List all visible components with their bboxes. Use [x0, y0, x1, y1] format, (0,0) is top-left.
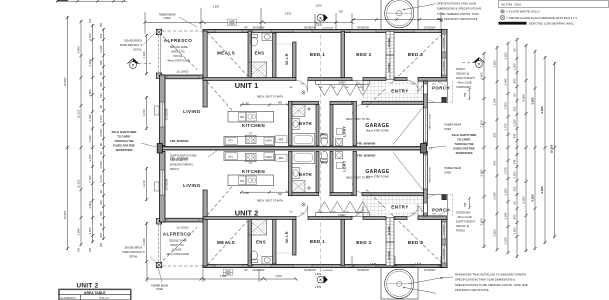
wall ldry/garage	[353, 101, 356, 145]
svg-text:FRL 60/60/60: FRL 60/60/60	[357, 154, 376, 158]
ens shower	[248, 62, 267, 78]
svg-text:21-21AGD: 21-21AGD	[177, 71, 189, 74]
svg-text:LIVING: LIVING	[183, 183, 201, 188]
svg-text:LINEN: LINEN	[338, 214, 345, 217]
tank note top	[437, 2, 481, 22]
top-left corner cut dims	[56, 0, 127, 2]
svg-text:900: 900	[278, 193, 283, 196]
svg-text:PER BASIX CERTIFICATE: PER BASIX CERTIFICATE	[455, 288, 489, 292]
smoke alarm hall	[302, 91, 305, 94]
svg-text:SOFFIT HEIGHT: SOFFIT HEIGHT	[456, 221, 475, 224]
svg-text:PTY: PTY	[229, 141, 234, 143]
svg-text:2,250: 2,250	[513, 171, 517, 178]
svg-text:EAVES FOR FIRE: EAVES FOR FIRE	[113, 144, 135, 148]
svg-text:STEPDOWN: STEPDOWN	[456, 86, 471, 89]
svg-text:09-06DSW: 09-06DSW	[357, 27, 369, 30]
svg-text:3,560: 3,560	[480, 218, 484, 225]
window codes top	[227, 19, 443, 29]
svg-text:OVER: OVER	[444, 172, 451, 175]
svg-text:7/8M P/L DOOR: 7/8M P/L DOOR	[430, 114, 432, 130]
svg-text:950: 950	[493, 132, 497, 137]
svg-text:ROBE: ROBE	[387, 250, 391, 259]
garage top wall	[362, 101, 426, 104]
notes: timber beam bottom-left	[151, 285, 168, 292]
svg-text:798: 798	[464, 202, 467, 207]
top outer wall	[203, 29, 447, 32]
svg-text:950: 950	[99, 82, 103, 87]
X marker top	[317, 14, 328, 22]
svg-text:21-21AGD: 21-21AGD	[177, 227, 189, 230]
svg-text:DIMENSIONS & SPECIFICATIONS: DIMENSIONS & SPECIFICATIONS	[437, 7, 481, 11]
svg-text:SOFFIT HEIGHT: SOFFIT HEIGHT	[456, 77, 475, 80]
svg-text:12-09DSW: 12-09DSW	[444, 38, 446, 48]
svg-text:REF: REF	[279, 158, 284, 160]
svg-text:MANUFACTURER'S: MANUFACTURER'S	[170, 164, 193, 167]
porch outline	[427, 81, 447, 103]
svg-text:PIERS PER ENG 'S: PIERS PER ENG 'S	[122, 251, 145, 254]
wall alfresco/meals + nib to kitchen	[203, 31, 207, 107]
front wall entry+garage	[424, 81, 428, 146]
svg-text:16,505: 16,505	[550, 144, 554, 153]
svg-text:1,445: 1,445	[504, 212, 508, 219]
tank circles	[385, 0, 414, 28]
svg-text:1,870: 1,870	[315, 285, 322, 289]
wir shelf	[276, 43, 293, 45]
svg-text:90: 90	[513, 201, 517, 205]
svg-text:1,440: 1,440	[88, 154, 92, 161]
porch roof dashed	[427, 81, 452, 103]
svg-text:PIERS PER ENG 'S: PIERS PER ENG 'S	[120, 44, 143, 47]
hall/linen door swing zigzags	[318, 85, 369, 96]
svg-text:HOUSE: HOUSE	[174, 55, 183, 58]
svg-text:900: 900	[278, 102, 283, 105]
svg-text:950: 950	[513, 78, 517, 83]
svg-text:1,570: 1,570	[504, 123, 508, 130]
svg-text:OVER: OVER	[156, 288, 163, 291]
svg-text:09-09DSW: 09-09DSW	[253, 27, 265, 30]
svg-text:OVEN: OVEN	[265, 157, 272, 159]
svg-text:950: 950	[99, 60, 103, 65]
svg-text:950: 950	[513, 214, 517, 219]
bed1 door arc	[297, 81, 308, 92]
robe slot bed2/bed3	[386, 31, 394, 79]
FRL labels	[170, 139, 376, 161]
svg-text:250: 250	[89, 247, 92, 252]
svg-text:2,190: 2,190	[88, 33, 92, 40]
svg-text:2,860: 2,860	[88, 89, 92, 96]
kitchen rear counter	[224, 136, 275, 145]
left dim chain line 2	[80, 20, 83, 246]
svg-text:ALFRESCO: ALFRESCO	[163, 232, 191, 237]
entry tiled floor	[362, 81, 424, 103]
svg-text:DENOTES LOAD BEARING WALL: DENOTES LOAD BEARING WALL	[529, 22, 574, 26]
svg-text:86mm STEP DOWN: 86mm STEP DOWN	[366, 130, 389, 133]
svg-text:610: 610	[99, 93, 103, 98]
svg-text:350x350 BRICK: 350x350 BRICK	[125, 247, 143, 250]
window codes bottom	[223, 269, 443, 280]
svg-text:RAINWATER TANK INSTALLED TO MA: RAINWATER TANK INSTALLED TO MANUFACTURER…	[455, 273, 526, 277]
svg-text:- 46mm SLAB: - 46mm SLAB	[456, 216, 472, 219]
svg-text:PORCH: PORCH	[456, 230, 465, 233]
svg-text:BATH: BATH	[299, 172, 312, 177]
svg-text:25mm SHAFTLINER: 25mm SHAFTLINER	[112, 130, 137, 134]
room labels unit1	[386, 86, 415, 94]
svg-text:2,440: 2,440	[99, 161, 103, 168]
alfresco slab left edge	[158, 31, 160, 75]
svg-text:- 46mm STEP DOWN: - 46mm STEP DOWN	[166, 60, 190, 63]
svg-text:2,340: 2,340	[88, 114, 92, 121]
svg-text:90: 90	[513, 48, 517, 52]
alfresco diagonal dashed	[163, 37, 197, 70]
svg-text:PORCH: PORCH	[456, 68, 465, 71]
svg-text:MEALS: MEALS	[217, 240, 235, 245]
left inner dim near wall top	[145, 34, 148, 263]
wall wc/ldry	[330, 105, 333, 146]
party wall	[157, 144, 426, 154]
ens vanity	[262, 33, 273, 41]
svg-text:SEPERATION: SEPERATION	[116, 148, 133, 152]
svg-text:1,000: 1,000	[243, 192, 250, 195]
svg-text:= FLOOR WASTE GULLY: = FLOOR WASTE GULLY	[507, 10, 541, 14]
svg-text:90: 90	[99, 190, 103, 194]
porch post	[442, 97, 447, 102]
svg-text:FRL 60/60/60: FRL 60/60/60	[357, 142, 376, 146]
svg-text:12-09DSW: 12-09DSW	[444, 225, 446, 235]
entry-bed3 diagonal dashed	[366, 32, 445, 108]
meals diagonal dashed	[208, 33, 249, 77]
svg-text:245: 245	[513, 159, 517, 164]
svg-text:3,270: 3,270	[99, 175, 103, 182]
svg-text:WC: WC	[321, 161, 328, 165]
bath shower	[292, 105, 305, 117]
svg-text:- 46mm SLAB: - 46mm SLAB	[456, 82, 472, 85]
svg-text:90: 90	[513, 93, 517, 97]
svg-text:9,385: 9,385	[540, 106, 544, 113]
svg-text:= SMOKE ALARM IN ACCORDANCE WI: = SMOKE ALARM IN ACCORDANCE WITH BCA 3.7…	[507, 16, 578, 20]
svg-text:ENTRY: ENTRY	[391, 205, 408, 210]
south wall of top rooms	[203, 78, 296, 81]
notes: brick piers unit1	[120, 40, 143, 52]
svg-text:2,340: 2,340	[142, 51, 146, 58]
svg-text:1,330: 1,330	[213, 5, 220, 9]
garage brace diagonal	[393, 107, 424, 145]
wall meals/ens	[248, 31, 252, 78]
svg-text:GP: GP	[244, 269, 248, 272]
svg-text:TO CARRY: TO CARRY	[457, 138, 471, 142]
svg-text:STEPDOWN: STEPDOWN	[456, 212, 471, 215]
svg-text:350x350 BRICK: 350x350 BRICK	[124, 40, 142, 43]
svg-text:90: 90	[99, 105, 103, 109]
svg-text:7/8M P/L DOOR: 7/8M P/L DOOR	[430, 167, 432, 183]
X marker bottom	[317, 275, 328, 283]
svg-text:ALFRESCO: ALFRESCO	[61, 296, 77, 300]
hall south wall / bath top	[289, 101, 319, 104]
svg-text:2,340: 2,340	[88, 175, 92, 182]
svg-text:1,870: 1,870	[315, 4, 322, 8]
svg-text:SPECIFICATIONS TO BE VERIFIED: SPECIFICATIONS TO BE VERIFIED ONSITE. TA…	[455, 283, 528, 287]
linen closet shelf strip	[316, 81, 370, 85]
dim text top	[213, 4, 344, 27]
svg-text:8,380: 8,380	[522, 94, 526, 101]
wall bed1/bed2	[341, 31, 345, 77]
svg-text:HEIGHT AS: HEIGHT AS	[170, 244, 184, 247]
left dim chain line 3	[91, 24, 94, 243]
window wir/bed1	[293, 30, 312, 32]
svg-text:718: 718	[338, 10, 343, 14]
bed3 door arc	[408, 81, 419, 92]
svg-text:OVER: OVER	[163, 17, 170, 20]
svg-text:Y: Y	[132, 63, 135, 68]
svg-text:2,250: 2,250	[513, 119, 517, 126]
svg-text:1,435: 1,435	[370, 262, 377, 266]
notes: shaftliner system below wall	[170, 155, 197, 172]
tank enclosure	[381, 0, 418, 30]
svg-text:3,270: 3,270	[99, 115, 103, 122]
wall kitchen/bath	[289, 101, 292, 145]
svg-text:3,560: 3,560	[88, 227, 92, 234]
svg-text:ROBE: ROBE	[387, 37, 391, 46]
svg-text:3,560: 3,560	[88, 59, 92, 66]
sliding door 21-21AGD	[167, 76, 199, 78]
svg-text:PTY: PTY	[229, 157, 234, 159]
svg-text:1,440: 1,440	[88, 135, 92, 142]
Y marker left unit1	[127, 59, 151, 69]
brick pier top-left	[156, 29, 161, 34]
ldry trough	[336, 138, 343, 145]
wall bath/wc	[316, 105, 319, 146]
svg-text:2,340: 2,340	[493, 192, 497, 199]
right outer wall bed3	[442, 29, 448, 78]
svg-text:UNIT 1: UNIT 1	[235, 81, 258, 90]
party wall left cap	[157, 144, 162, 154]
svg-text:OVEN: OVEN	[265, 141, 272, 143]
dim text bottom	[220, 262, 422, 289]
svg-text:SPECIFICATIONS TANK SLAB DIMEN: SPECIFICATIONS TANK SLAB DIMENSIONS &	[455, 278, 515, 282]
svg-text:LIVING: LIVING	[183, 109, 201, 114]
wc toilet	[321, 137, 327, 146]
svg-text:90: 90	[99, 72, 103, 76]
room labels unit2	[163, 160, 450, 259]
svg-text:SIZE PER BASIX CERTIFICATE: SIZE PER BASIX CERTIFICATE	[437, 17, 478, 21]
svg-text:WC: WC	[321, 132, 328, 136]
window bed3 right b	[442, 58, 447, 75]
svg-text:1,650: 1,650	[220, 274, 227, 278]
svg-text:BED 1: BED 1	[310, 239, 326, 244]
svg-text:950: 950	[99, 211, 103, 216]
svg-text:09-09DSW: 09-09DSW	[253, 269, 265, 272]
svg-text:W.I.R: W.I.R	[284, 53, 289, 65]
bath tub	[292, 134, 315, 146]
wall wir/bed1	[293, 42, 296, 78]
svg-text:3,940: 3,940	[77, 228, 81, 235]
kitchen island bench	[228, 111, 274, 122]
notes: shaftliner right	[452, 133, 477, 155]
left dim chain line 4	[102, 28, 105, 240]
svg-text:TIMBER BEAM: TIMBER BEAM	[444, 167, 461, 170]
svg-text:1,425: 1,425	[504, 237, 508, 244]
svg-text:W.I.R: W.I.R	[284, 231, 289, 243]
brick pier bottom-left	[156, 73, 161, 78]
svg-text:1,870: 1,870	[285, 12, 292, 16]
window bed2	[350, 30, 376, 32]
svg-text:18-15DSW: 18-15DSW	[167, 178, 169, 190]
AC unit box outside	[155, 106, 160, 115]
svg-text:UNIT 2: UNIT 2	[76, 282, 98, 289]
svg-text:2,250: 2,250	[480, 169, 484, 176]
svg-text:- 46mm STEP DOWN: - 46mm STEP DOWN	[165, 253, 189, 256]
svg-text:1,000: 1,000	[243, 103, 250, 106]
svg-text:SEPERATION: SEPERATION	[456, 151, 473, 155]
svg-text:9,380: 9,380	[531, 97, 535, 104]
top dims	[144, 8, 442, 34]
svg-text:250: 250	[100, 22, 103, 27]
svg-text:8.91 m²: 8.91 m²	[99, 296, 109, 300]
svg-text:25mm SHAFTLINER: 25mm SHAFTLINER	[452, 133, 477, 137]
svg-text:BED 3: BED 3	[408, 52, 424, 57]
svg-text:2,340: 2,340	[142, 238, 146, 245]
svg-text:LDRY: LDRY	[343, 160, 347, 171]
svg-text:12-09DSW: 12-09DSW	[444, 249, 446, 259]
svg-text:1,870: 1,870	[315, 272, 322, 276]
notes: shaftliner left	[112, 130, 137, 152]
alfresco dashed top edge	[157, 30, 204, 32]
svg-text:X: X	[319, 277, 322, 282]
svg-text:16,500: 16,500	[63, 77, 67, 86]
svg-text:BED 2: BED 2	[356, 240, 372, 245]
svg-text:950: 950	[99, 232, 103, 237]
svg-text:BED 1: BED 1	[310, 52, 326, 57]
bottom dims	[146, 256, 442, 282]
svg-text:GP: GP	[244, 27, 248, 30]
svg-text:TO BE VERIFIED ONSITE. TANK: TO BE VERIFIED ONSITE. TANK	[437, 12, 479, 16]
svg-text:245: 245	[513, 133, 517, 138]
wall ens/wir	[273, 33, 276, 78]
svg-text:ENTRY: ENTRY	[391, 89, 408, 94]
svg-text:1,210: 1,210	[142, 109, 146, 116]
svg-text:BED 2: BED 2	[356, 52, 372, 57]
garage door opening in front wall	[424, 108, 427, 142]
svg-text:250: 250	[100, 242, 103, 247]
svg-text:798: 798	[464, 92, 467, 97]
svg-text:SPEC'S: SPEC'S	[170, 168, 179, 171]
svg-text:MEALS: MEALS	[217, 51, 235, 56]
svg-text:GARAGE: GARAGE	[365, 169, 390, 175]
window meals	[215, 30, 242, 32]
svg-text:X: X	[319, 15, 322, 20]
svg-text:OVER: OVER	[444, 128, 451, 131]
svg-text:- CEILING SAME: - CEILING SAME	[167, 240, 187, 243]
svg-text:10,120: 10,120	[77, 109, 81, 118]
svg-text:2,960: 2,960	[493, 229, 497, 236]
svg-text:1,870: 1,870	[275, 274, 282, 278]
svg-text:8,380: 8,380	[522, 196, 526, 203]
bath vanity	[292, 119, 299, 130]
svg-text:10,120: 10,120	[77, 179, 81, 188]
svg-text:950: 950	[493, 160, 497, 165]
svg-text:9,385: 9,385	[540, 186, 544, 193]
svg-text:BATH: BATH	[299, 121, 312, 126]
Y marker right unit1	[462, 58, 485, 68]
svg-text:DETAIL: DETAIL	[129, 256, 138, 259]
notes: timber beam right unit1	[444, 124, 461, 132]
svg-text:INSTALLED TO: INSTALLED TO	[170, 159, 188, 162]
svg-text:GP: GP	[440, 277, 444, 280]
svg-text:ROBE: ROBE	[387, 62, 391, 71]
svg-text:THROUGH THE: THROUGH THE	[454, 142, 473, 146]
svg-text:FRL 60/60/60: FRL 60/60/60	[170, 139, 189, 143]
svg-text:KITCHEN: KITCHEN	[242, 169, 265, 174]
living diagonal dashed	[204, 78, 234, 112]
svg-text:09-09DSW: 09-09DSW	[304, 269, 316, 272]
right rotated dim numbers	[480, 48, 554, 244]
window living left	[160, 102, 165, 127]
tank note bottom	[455, 273, 528, 293]
svg-text:LDRY: LDRY	[343, 126, 347, 137]
svg-text:SPECIFICATIONS TANK SLAB: SPECIFICATIONS TANK SLAB	[437, 2, 476, 6]
svg-text:3,560: 3,560	[480, 72, 484, 79]
svg-text:UNIT 2: UNIT 2	[235, 209, 258, 218]
svg-text:9,380: 9,380	[531, 194, 535, 201]
svg-text:1,200: 1,200	[513, 63, 517, 70]
svg-text:15-18DSW: 15-18DSW	[424, 269, 436, 272]
alfresco bottom wall with sliding door	[162, 75, 203, 79]
kitchen dim lines	[240, 104, 289, 106]
svg-text:PORCH: PORCH	[432, 208, 450, 213]
tank leader	[404, 4, 436, 10]
svg-text:MECH. VENT. TO WC: MECH. VENT. TO WC	[346, 118, 370, 121]
svg-text:1,050: 1,050	[504, 102, 508, 109]
front door opening	[424, 84, 427, 94]
svg-text:2,860: 2,860	[88, 201, 92, 208]
svg-text:TIMBER BEAM: TIMBER BEAM	[444, 124, 461, 127]
legend top right	[499, 1, 609, 26]
svg-text:245: 245	[89, 18, 92, 23]
svg-text:2,440: 2,440	[99, 129, 103, 136]
svg-text:HOUSE: HOUSE	[173, 249, 182, 252]
svg-text:2,180: 2,180	[99, 45, 103, 52]
svg-text:86mm STEP DOWN: 86mm STEP DOWN	[366, 176, 389, 179]
svg-text:BED 3: BED 3	[408, 240, 424, 245]
svg-text:1,425: 1,425	[504, 52, 508, 59]
notes: porch ceiling right unit1	[456, 68, 475, 100]
svg-text:1,570: 1,570	[504, 167, 508, 174]
svg-text:1,050: 1,050	[504, 188, 508, 195]
svg-text:1,445: 1,445	[504, 78, 508, 85]
svg-text:DETAIL: DETAIL	[133, 49, 142, 52]
svg-text:15-09DSW: 15-09DSW	[322, 28, 334, 30]
svg-text:09-09DSW: 09-09DSW	[304, 27, 316, 30]
fwg bath	[308, 108, 311, 111]
garage internal door arc	[353, 105, 363, 115]
notes: porch ceiling right unit2	[456, 197, 475, 233]
svg-text:MECH. VENT. TO BATH: MECH. VENT. TO BATH	[257, 95, 283, 98]
svg-text:15-18DSW: 15-18DSW	[424, 27, 436, 30]
svg-text:TO CARRY: TO CARRY	[117, 135, 131, 139]
svg-text:ENS: ENS	[255, 51, 265, 56]
svg-text:16,500: 16,500	[63, 210, 67, 219]
svg-text:AS 3740 - 2010: AS 3740 - 2010	[501, 3, 521, 7]
svg-text:12-09DSW: 12-09DSW	[444, 61, 446, 71]
svg-text:09-06DSW: 09-06DSW	[357, 269, 369, 272]
ens toilet	[251, 37, 258, 46]
svg-text:LINEN: LINEN	[338, 82, 345, 85]
svg-text:AREA TABLE: AREA TABLE	[84, 291, 106, 295]
svg-text:KITCHEN: KITCHEN	[242, 123, 265, 128]
svg-text:GP: GP	[429, 148, 433, 151]
small annotations unit2	[165, 157, 389, 256]
rotated window codes sides	[167, 38, 446, 259]
notes: timber beam top-left	[158, 14, 175, 21]
